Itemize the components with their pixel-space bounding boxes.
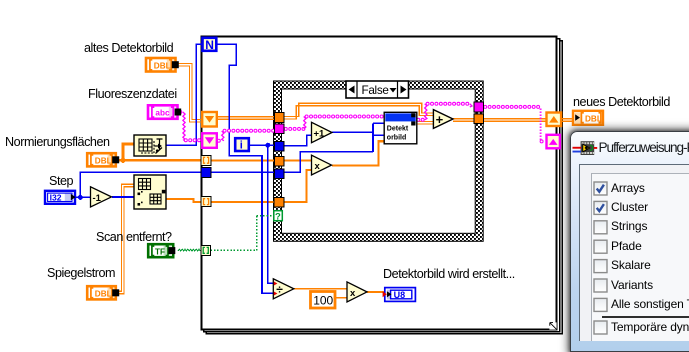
case selector label "False": [346, 81, 409, 98]
checkbox label Variants: [611, 278, 653, 292]
wire: altes Detektorbild to left shift register (2D orange double): [176, 63, 202, 122]
node label: Scan entfernt?: [96, 230, 172, 244]
loop tunnel D (green array): [201, 245, 211, 255]
case tunnel T6 orange: [274, 197, 284, 207]
for loop fold corner: [549, 322, 556, 329]
wire: constant 100 to multiply x2: [336, 297, 347, 299]
case tunnel T2 magenta: [275, 124, 285, 134]
icon2 index/build array function: [134, 175, 166, 209]
checkbox label Temporaere dynamische: [611, 320, 689, 334]
Pufferzuweisung dialog window: [570, 131, 689, 352]
checkbox Temporaere dynamische: [594, 321, 607, 334]
multiply x2: [347, 282, 367, 302]
case tunnel T8 magenta: [474, 102, 484, 112]
divide: [273, 279, 294, 299]
checkbox Pfade: [594, 240, 607, 253]
junction dot on Normierungsflaechen wire: [120, 158, 125, 163]
node label: Detektorbild wird erstellt...: [383, 267, 515, 281]
dialog separator line: [602, 316, 689, 318]
case tunnel T1 orange: [275, 113, 285, 123]
wire: -1 output into icon2: [112, 196, 134, 198]
checkbox rows: [0, 0, 1, 1]
wire: loop tunnel A to case tunnel T4 to multiply x1 top input: [211, 159, 312, 161]
node label: Normierungsflaechen: [5, 135, 110, 149]
node label: altes Detektorbild: [84, 41, 173, 55]
wire: icon2 output to loop tunnel C / case tunnel T6: [166, 199, 275, 202]
add +: [433, 110, 453, 129]
terminal Normierungsflaechen: [87, 153, 119, 166]
node label: Step: [49, 174, 73, 188]
case structure: [274, 81, 484, 241]
node label: Fluoreszenzdatei: [88, 87, 177, 101]
checkbox Cluster (checked): [594, 201, 607, 214]
loop tunnel A (orange array): [201, 155, 211, 165]
checkbox Skalare: [594, 260, 607, 273]
wire: N output routed down to divide bottom input: [217, 44, 273, 293]
indicator U8: [383, 288, 416, 302]
decrement -1: [91, 187, 112, 207]
green [] glyph on loop tunnel D: [203, 247, 208, 253]
wire: boolean dotted from loop tunnel D to case selector tunnel: [211, 216, 274, 251]
case tunnel T3 blue: [275, 141, 285, 151]
orange [] glyphs on loop tunnels: [204, 157, 209, 204]
checkbox label Cluster: [611, 200, 648, 214]
wire: rope from case tunnel T2 along case top behind subVI: [286, 127, 305, 131]
wire: rope from subVI right edge over add to case tunnel T8: [418, 118, 425, 122]
wire: Normierungsflaechen run and riser into icon1 (1D thick): [117, 144, 201, 161]
wire: subVI output to add (+) bottom input: [417, 122, 433, 125]
dialog title text: [599, 140, 689, 155]
case selector tunnel "?": [274, 211, 283, 223]
terminal Fluoreszenzdatei: [148, 105, 181, 119]
terminal neues Detektorbild (indicator): [573, 111, 603, 125]
for loop border: [202, 37, 562, 334]
wire: T3 into increment +1 input: [284, 135, 312, 146]
constant 100: [311, 292, 336, 309]
wire: loop tunnel B to case tunnel T5: [211, 171, 275, 173]
pink rope wires (string array): [180, 104, 545, 142]
checkbox Arrays (checked): [594, 182, 607, 195]
checkbox label Arrays: [611, 181, 645, 195]
wire: pink shift register output rope up and right to case tunnel T2: [219, 139, 223, 143]
checkbox label Skalare: [611, 258, 651, 272]
checkbox label Pfade: [611, 239, 642, 253]
node label: neues Detektorbild: [573, 95, 670, 109]
wire: multiply x1 output to subVI third input: [332, 141, 384, 165]
wire: T6 up into multiply x1 bottom input: [284, 170, 312, 202]
node label: Spiegelstrom: [47, 266, 115, 280]
wire: add (+) output through T9 to right shift register and neues Detektorbild: [453, 119, 573, 122]
wire: +1 output fork to subVI inputs and T5: [284, 123, 384, 172]
terminal Step I32: [45, 191, 76, 204]
shift register left orange (down arrow): [202, 112, 217, 127]
wire: icon1 output up to N count terminal: [166, 44, 202, 145]
junction dot on i wire: [265, 143, 270, 148]
wire: T1 step up, top run, down into add (+) top input: [284, 103, 433, 119]
dialog client area: [579, 164, 689, 341]
shift register left magenta (down arrow): [202, 133, 217, 148]
i iteration terminal: [235, 138, 249, 151]
shift register right orange (up arrow): [547, 113, 562, 127]
checkbox Alle sonstigen Typen: [594, 298, 607, 311]
wire: left shift register to case tunnel T1: [217, 117, 275, 120]
wire: boolean zigzag from TF terminal to loop tunnel D: [178, 249, 200, 251]
junction dot on Step wire: [78, 195, 83, 200]
checkbox label Alle sonstigen Typen: [611, 297, 689, 311]
case tunnel T9 orange: [474, 114, 484, 124]
case tunnel T4 orange: [275, 156, 285, 166]
multiply x1: [312, 155, 332, 175]
dialog title icon: [572, 140, 601, 157]
checkbox Strings: [594, 221, 607, 234]
dialog group panel: [591, 173, 689, 341]
subVI Detektorbild: [384, 112, 417, 144]
checkbox Variants: [594, 279, 607, 292]
shift register right magenta (up arrow): [547, 135, 560, 149]
increment +1: [312, 122, 333, 142]
wire: Spiegelstrom riser into icon2 (2D orange double): [115, 184, 134, 293]
terminal altes Detektorbild: [146, 58, 179, 72]
checkbox label Strings: [611, 219, 647, 233]
terminal Scan entfernt TF: [148, 244, 175, 257]
terminal Spiegelstrom: [87, 286, 119, 299]
wire: Step terminal riser into loop tunnel B: [76, 172, 201, 197]
icon1 array size function: [134, 135, 166, 156]
wire: i terminal to case tunnel T3 and down to divide top input: [250, 145, 275, 283]
N count terminal: [203, 38, 217, 52]
wire: multiply x2 output to U8 indicator: [367, 291, 384, 293]
wire: divide output to multiply x2: [294, 288, 347, 290]
case tunnel T5 blue: [275, 169, 285, 179]
loop tunnel B (blue): [201, 168, 211, 178]
loop tunnel C (orange array): [201, 197, 211, 207]
wire: rope from case tunnel T8 down to magenta right shift register: [485, 105, 540, 109]
wire: Fluoreszenzdatei string-array rope down into pink shift register: [180, 110, 183, 114]
